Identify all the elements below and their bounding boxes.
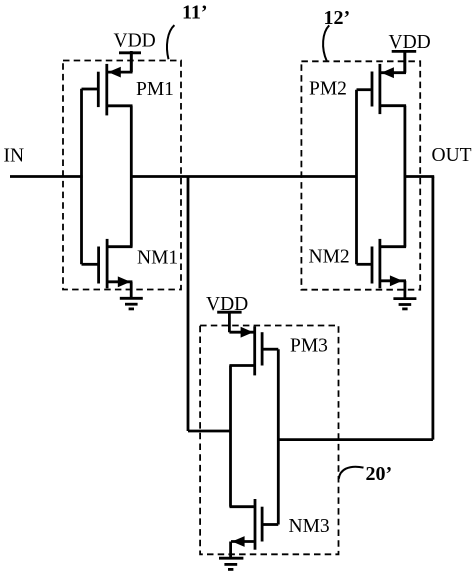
ground symbol (block 20') [219,558,243,569]
wire feedback vertical from OUT down [431,177,434,440]
inverter block 12' dashed box [301,61,420,289]
keeper block 20' dashed box [200,326,338,555]
PM3 gate bar [261,332,264,365]
power VDD terminal 3 [217,312,241,332]
transistor PM1 [82,51,133,115]
NM2 source arrow (points outward) [390,275,403,286]
wire inverter2 gate vertical [355,90,358,265]
wire IN input line [10,175,83,178]
NM3 source vertical to ground [229,542,232,558]
svg-text:IN: IN [4,146,25,167]
wire inverter2 output vertical (PM2 drain to NM2 drain) [403,106,406,247]
PM2 channel bar [378,64,381,114]
NM1 drain lead [108,245,132,248]
NM2 drain lead [381,245,406,248]
NM2 gate lead [357,263,371,266]
PM2 gate lead [357,88,371,91]
PM3 drain lead [229,364,253,367]
PM2 source arrow (points to channel) [381,67,394,78]
PM3 source lead from VDD [229,331,253,334]
wire node vertical down to keeper output [187,177,190,432]
leader arc 11' [167,25,174,59]
transistor NM1 [82,239,133,299]
PM2 source lead [381,71,406,74]
NM1 source vertical to ground [130,282,133,299]
PM1 source arrow (points to channel) [108,67,121,78]
transistor NM3 (mirrored) [230,499,279,557]
svg-text:OUT: OUT [432,145,472,166]
ground symbol (block 12') [393,299,416,309]
wire OUT line [405,175,434,178]
PM2 gate bar [371,72,374,107]
svg-text:PM1: PM1 [136,79,174,100]
PM3 source arrow (points to channel) [241,327,254,338]
NM3 channel bar [254,499,257,550]
power VDD terminal 1 [119,53,141,72]
leader arc 12' [323,25,329,61]
wire keeper gate vertical [277,349,280,524]
power VDD terminal 2 [392,51,417,72]
PM2 source vertical to VDD [403,51,406,73]
NM2 source lead [381,279,406,282]
svg-text:NM1: NM1 [137,247,178,268]
PM1 drain lead [108,104,133,107]
transistor PM2 [357,51,407,114]
NM3 gate bar [261,507,264,542]
PM1 channel bar [105,64,108,116]
NM2 gate bar [371,247,374,284]
NM1 gate bar [97,247,100,284]
svg-text:NM3: NM3 [289,516,330,537]
svg-text:PM3: PM3 [290,336,328,357]
PM1 gate bar [97,72,100,107]
PM3 channel bar [253,326,256,375]
NM3 source arrow (points outward) [232,536,245,547]
svg-text:VDD: VDD [114,31,156,52]
wire internal node line to PM2/NM2 gate [131,175,356,178]
NM1 source lead [108,280,132,283]
NM1 source arrow (points outward) [118,276,131,287]
NM1 channel bar [106,239,109,288]
wire inverter1 gate vertical [80,89,83,265]
inverter block 11' dashed box [63,61,181,290]
svg-text:NM2: NM2 [309,247,350,268]
NM2 channel bar [378,239,381,288]
PM1 source lead [108,71,133,74]
NM2 source vertical to ground [403,281,406,299]
ground symbol (block 11') [120,298,143,309]
PM3 gate lead [263,348,278,351]
NM1 gate lead [82,263,98,266]
svg-text:VDD: VDD [389,32,431,53]
PM1 gate lead [82,88,98,91]
svg-text:12’: 12’ [324,7,351,29]
PM1 source vertical to VDD [130,51,133,72]
wire inverter1 output vertical (PM1 drain to NM1 drain) [130,106,133,247]
NM3 drain lead [230,505,254,508]
transistor NM2 [357,239,407,299]
svg-text:PM2: PM2 [309,79,347,100]
wire keeper output node horizontal [188,430,231,433]
leader arc 20' [339,467,364,479]
NM3 gate lead [263,523,278,526]
PM2 drain lead [381,104,406,107]
svg-text:11’: 11’ [182,2,208,24]
transistor PM3 (mirrored) [229,326,278,375]
wire keeper drain vertical (PM3 drain to NM3 drain) [229,366,232,507]
NM3 source lead [231,540,254,543]
wire feedback horizontal to keeper gate [278,438,433,441]
svg-text:20’: 20’ [366,463,393,485]
